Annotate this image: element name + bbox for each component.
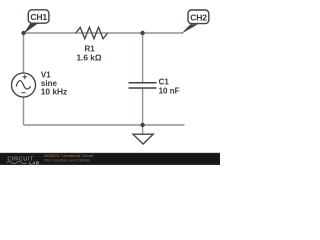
svg-text:C1: C1 — [159, 78, 170, 87]
wire bottom rail — [24, 124, 185, 126]
wire capacitor branch lower — [142, 88, 144, 125]
node junction top-left — [21, 31, 25, 35]
node junction top capacitor — [140, 31, 144, 35]
node junction bottom capacitor — [140, 123, 144, 127]
svg-text:CH2: CH2 — [190, 12, 207, 22]
svg-text:CH1: CH1 — [30, 12, 47, 22]
svg-text:http://circuitlab.com/c28949b: http://circuitlab.com/c28949b — [44, 158, 90, 162]
wire ground stub — [142, 125, 144, 134]
voltage source V1 — [12, 73, 36, 97]
wire left branch lower — [23, 97, 25, 125]
wire left branch upper — [23, 33, 25, 73]
footer logo squiggle — [7, 162, 27, 164]
resistor R1 — [76, 27, 108, 38]
capacitor C1 — [129, 83, 157, 88]
svg-text:10 kHz: 10 kHz — [41, 87, 68, 97]
probe CH2 — [181, 10, 209, 34]
svg-text:V1: V1 — [41, 70, 51, 79]
wire top rail — [24, 32, 184, 34]
svg-text:1.6 kΩ: 1.6 kΩ — [76, 52, 101, 62]
svg-text:4233370 / Unnamed Circuit: 4233370 / Unnamed Circuit — [44, 153, 94, 158]
probe CH1 — [23, 10, 49, 34]
svg-text:LAB: LAB — [29, 160, 40, 165]
svg-text:10 nF: 10 nF — [159, 86, 180, 95]
footer watermark bar — [0, 153, 220, 165]
ground — [133, 134, 153, 144]
wire capacitor branch upper — [142, 33, 144, 82]
